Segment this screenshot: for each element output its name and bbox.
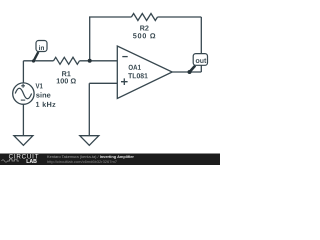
label sine xyxy=(36,92,50,97)
label V1 xyxy=(36,83,43,88)
footer logo waveform xyxy=(2,159,20,162)
footer bar xyxy=(0,154,220,166)
ground (middle, under plus input) xyxy=(80,136,99,146)
wire feedback left vertical xyxy=(89,17,91,61)
label OA1 xyxy=(129,65,141,70)
out flag xyxy=(193,54,207,66)
op-amp OA1 xyxy=(117,46,172,99)
wire feedback right vertical down xyxy=(200,17,202,72)
wire V1 bottom to ground xyxy=(22,104,24,135)
wire feedback top left horizontal xyxy=(89,16,131,18)
svg-text:LAB: LAB xyxy=(26,159,37,165)
wire feedback top right horizontal xyxy=(158,16,202,18)
label R2 xyxy=(140,26,148,31)
wire plus input horizontal xyxy=(89,82,117,84)
op-amp minus input symbol xyxy=(122,56,127,58)
label 1 kHz xyxy=(36,102,55,107)
wire input horizontal right segment to op-amp xyxy=(80,60,118,62)
node junction dot A (R1/R2/op-amp minus) xyxy=(88,59,92,63)
wire op-amp output horizontal xyxy=(172,71,201,73)
label 100 ohm xyxy=(57,78,76,83)
wire plus input vertical to ground xyxy=(88,83,90,135)
in flag xyxy=(36,41,47,52)
resistor R1 xyxy=(54,57,80,64)
svg-text:http://circuitlab.com/c6md6b32: http://circuitlab.com/c6md6b32r3267m7 xyxy=(47,159,118,164)
node dot in flag attach xyxy=(32,59,35,62)
wire left vertical from input to V1 top xyxy=(22,61,24,83)
label R1 xyxy=(62,71,71,76)
node junction dot B (output/out flag) xyxy=(188,70,192,74)
voltage source V1 xyxy=(13,83,34,104)
in flag tail xyxy=(34,52,39,61)
label 500 ohm xyxy=(133,33,155,38)
ground (left, under V1) xyxy=(14,136,33,146)
op-amp plus input symbol xyxy=(121,78,128,85)
out flag tail xyxy=(190,66,196,72)
resistor R2 xyxy=(131,14,157,21)
label TL081 xyxy=(128,73,148,78)
wire input horizontal left segment xyxy=(23,60,53,62)
